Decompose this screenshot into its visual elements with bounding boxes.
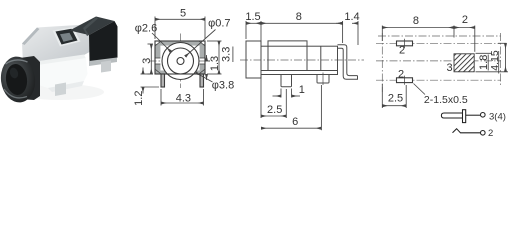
centerline vertical (180, 34, 182, 89)
inner bottom line (261, 70, 338, 72)
rear black block front (89, 21, 118, 64)
dim 2.5 line (382, 105, 406, 107)
svg-text:2.5: 2.5 (388, 93, 403, 105)
right terminal inner (338, 48, 358, 79)
front view dimension texts (133, 8, 234, 106)
layout view texts (388, 14, 501, 106)
svg-text:3.3: 3.3 (221, 47, 233, 62)
dim 3 line (150, 44, 152, 74)
gray band right upper (200, 44, 205, 58)
legend labels (488, 111, 506, 139)
svg-text:φ0.7: φ0.7 (208, 17, 230, 29)
svg-text:2: 2 (462, 14, 468, 26)
bore gloss (8, 66, 19, 79)
dim 4.3 line (161, 102, 204, 104)
svg-text:1.2: 1.2 (133, 91, 145, 106)
outline top (378, 35, 501, 37)
dim 1.2 extensions (141, 73, 154, 75)
dim 2.5 line (261, 115, 286, 117)
pad 3 hatched (454, 54, 474, 72)
top slot inner (60, 33, 73, 42)
dim 1.4 line outside arrows (336, 22, 342, 24)
gray band bottom (155, 71, 204, 74)
svg-text:1.3: 1.3 (209, 56, 221, 71)
svg-text:6: 6 (292, 116, 298, 128)
svg-text:2.5: 2.5 (267, 104, 282, 116)
dim 8 line (261, 22, 343, 24)
dim 3 extensions (148, 43, 154, 45)
barrel rim highlight (6, 60, 28, 64)
svg-text:3(4): 3(4) (489, 111, 506, 122)
top slot rim (53, 27, 81, 47)
chamfer strip front-top (22, 55, 86, 68)
svg-text:8: 8 (296, 11, 302, 23)
dim 8 line (382, 27, 454, 29)
leader 2-1.5x0.5 (414, 84, 426, 95)
bushing (246, 41, 261, 78)
gray band right lower (200, 64, 205, 71)
pad 2 top tick (404, 39, 406, 48)
dim 4.15 line (505, 43, 507, 72)
svg-text:1.8: 1.8 (478, 55, 490, 70)
dim 5 line (155, 18, 205, 20)
inner circle phi2.6 (168, 48, 194, 74)
svg-text:1.4: 1.4 (344, 11, 359, 23)
terminal circle 2 (481, 131, 486, 136)
terminal circle 3(4) (481, 113, 486, 118)
block highlight edge (83, 17, 98, 36)
metal side strip below block (89, 58, 117, 67)
top face back bevel (22, 28, 40, 46)
barrel outer (0, 55, 38, 105)
svg-text:2: 2 (488, 128, 493, 139)
dim 2.5 extensions (260, 77, 262, 119)
dim 1.8 underline (487, 55, 489, 71)
svg-text:2: 2 (398, 68, 404, 80)
svg-text:5: 5 (180, 8, 186, 20)
gray band left lower (155, 64, 160, 71)
dim 3.3 underline (232, 47, 234, 63)
dim 1.5 line (246, 22, 261, 24)
outline left (381, 33, 383, 92)
barrel lower rim light (4, 89, 27, 98)
center line (376, 60, 501, 62)
square outline (155, 41, 205, 74)
body front face (24, 58, 88, 88)
dim 2 line top (454, 27, 475, 29)
divider line (320, 46, 322, 70)
dim 1.8 extensions (476, 52, 493, 54)
center pin (281, 75, 292, 87)
dim 3.3 line (218, 41, 220, 74)
gray band top (159, 41, 202, 45)
dim 4.3 extensions (160, 89, 162, 106)
dim 1.3 line outside arrows (206, 55, 208, 61)
dim 1 extensions (280, 89, 282, 98)
leg right (101, 61, 111, 73)
main body (261, 46, 338, 74)
left leg (161, 74, 165, 87)
block side lines down (267, 46, 269, 70)
dim 1.2 line outside arrows (142, 68, 144, 75)
centerline horizontal (150, 60, 214, 62)
tip spring symbol (453, 129, 481, 133)
photo shadow (16, 84, 104, 100)
svg-text:1.5: 1.5 (245, 11, 260, 23)
inner frame ticks (155, 58, 204, 64)
leader phi0.7 (185, 30, 215, 57)
leg front (55, 83, 66, 97)
top dims extensions (245, 21, 247, 39)
body top face (22, 25, 91, 64)
raised block on top (268, 41, 307, 46)
svg-text:φ3.8: φ3.8 (212, 80, 234, 92)
dim 1 outside arrows (273, 95, 282, 97)
pad 2 bottom (397, 78, 413, 83)
dim 5 extension lines (154, 17, 156, 40)
leader phi2.6 (152, 33, 171, 52)
center pin hole phi0.7 (177, 58, 184, 65)
outline right (500, 33, 502, 85)
dim 3.3 extensions (207, 40, 222, 42)
body lower shading (48, 81, 84, 92)
dim 6 extension (320, 85, 322, 130)
tab pin (317, 75, 329, 84)
gray band left upper (155, 44, 160, 58)
dim 6 line (261, 127, 321, 129)
svg-text:1: 1 (299, 84, 305, 96)
top dims extensions (381, 26, 383, 42)
side view dimension texts (245, 11, 359, 128)
dim 4.15 underline (498, 51, 500, 74)
svg-text:2: 2 (399, 45, 405, 57)
pad 2 bottom tick (404, 76, 406, 85)
svg-text:φ2.6: φ2.6 (135, 23, 157, 35)
big circle phi3.8 (162, 43, 199, 80)
svg-text:4.15: 4.15 (489, 50, 501, 71)
top slot outer (56, 29, 78, 45)
barrel bore (4, 63, 29, 96)
svg-text:8: 8 (413, 15, 419, 27)
dim 2.5 extensions (381, 84, 383, 108)
right leg (200, 74, 204, 87)
outline bottom through lower pads (376, 79, 501, 81)
pad 2 top (397, 41, 413, 46)
corner chamfer marks (156, 42, 161, 46)
rear black block top (70, 17, 115, 36)
right terminal top bend (338, 45, 358, 76)
svg-text:4.3: 4.3 (176, 93, 191, 105)
svg-text:3: 3 (141, 58, 153, 64)
barrel collar (20, 56, 40, 100)
svg-text:2-1.5x0.5: 2-1.5x0.5 (424, 94, 468, 106)
plug bar (463, 110, 466, 123)
svg-text:3: 3 (446, 62, 452, 74)
plug sleeve symbol (441, 113, 462, 118)
dim 4.15 top extension (498, 42, 507, 44)
pad row top centerline (376, 42, 501, 44)
centerline (240, 59, 364, 61)
lead to circle 3(4) (466, 114, 481, 116)
dim 1.3 extension (206, 60, 211, 62)
leader phi3.8 (196, 73, 213, 82)
tab pin tick (322, 73, 324, 86)
